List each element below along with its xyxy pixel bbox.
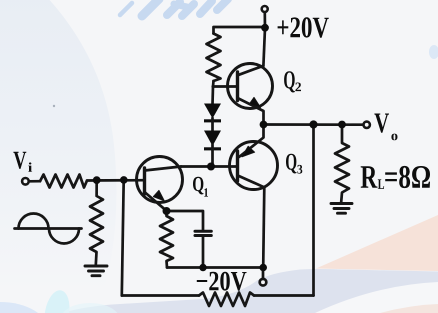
- watermark: white swoosh cutting bottom-right: [315, 282, 438, 313]
- Q1 emitter arrow: [153, 190, 164, 200]
- wire: output rail (Q2/Q3 emitters to Vo): [264, 123, 364, 126]
- sine source symbol: [15, 214, 82, 244]
- Q1 base bar: [143, 168, 146, 194]
- resistor R4 (bias to ground): [90, 180, 103, 265]
- Q3 emitter lead (top): [239, 125, 264, 158]
- Q2 collector lead: [238, 66, 263, 75]
- diode D1: [204, 104, 221, 123]
- resistor R5 (Q1 emitter): [160, 211, 173, 268]
- wire: Q2 base: [213, 85, 238, 88]
- Q3 base bar: [236, 151, 239, 181]
- transistor Q3 (PNP) circle: [230, 142, 278, 190]
- node: +20V junction: [261, 24, 269, 32]
- label -20V: [197, 272, 247, 291]
- transistor Q1 (NPN) circle: [137, 157, 183, 203]
- Q1 collector lead: [145, 167, 182, 171]
- watermark: blue blob bottom-left corner: [0, 302, 48, 313]
- watermark: blue logo glyph strokes top center: [120, 0, 228, 16]
- label Vi: [13, 152, 32, 172]
- resistor RL (load): [335, 125, 349, 203]
- resistor R3 (input series): [40, 175, 87, 188]
- label +20V: [278, 17, 329, 38]
- wire: input resistor to Q1 base: [87, 179, 145, 182]
- wire: emitter network bottom: [167, 266, 263, 269]
- Q1 emitter lead: [145, 192, 167, 211]
- wire: bottom loop left segment: [122, 294, 199, 297]
- watermark: pink sliver bottom-right corner: [380, 304, 438, 313]
- wire: left loop vertical: [122, 180, 124, 296]
- wire: D1 to D2: [211, 118, 214, 131]
- Q2 emitter lead: [238, 98, 264, 125]
- label Q3: [286, 154, 302, 174]
- terminal +20V (top): [262, 6, 268, 12]
- node: RL junction: [338, 121, 346, 129]
- capacitor C1 branch top wire: [167, 211, 204, 230]
- node: Q1 emitter junction: [163, 207, 171, 215]
- wire: -20V junction to terminal: [262, 268, 265, 279]
- Q2 base bar: [236, 72, 239, 101]
- wire: bottom loop right segment: [254, 294, 314, 297]
- watermark: peach wedge right: [316, 215, 438, 271]
- terminal Vo: [364, 122, 370, 128]
- scan speck: [53, 105, 55, 107]
- wire: D2 to node A: [211, 145, 214, 167]
- Q3 collector lead (bottom): [238, 176, 264, 268]
- wire: bootstrap vertical right: [312, 125, 315, 296]
- wire: Vi to input resistor: [29, 180, 40, 183]
- node: bootstrap junction: [309, 120, 317, 128]
- transistor Q2 (NPN) circle: [228, 64, 273, 109]
- node: input/bias junction: [93, 176, 101, 184]
- ground (load RL): [331, 204, 352, 214]
- wire: terminal to +20V junction: [263, 12, 266, 28]
- node A: diode/Q1 collector/Q3 base: [207, 163, 215, 171]
- wire: node A horizontal (Q1 collector to Q3 base): [181, 165, 238, 168]
- watermark: pale disc top-left: [0, 0, 116, 290]
- node: output/Q2-Q3 emitter junction: [260, 121, 268, 129]
- ground (input bias): [85, 266, 107, 276]
- Q3 emitter arrow (PNP, pointing to base): [242, 146, 255, 157]
- capacitor C1 plates: [195, 231, 211, 235]
- wire: +20V rail down to Q2 collector: [263, 28, 265, 66]
- label RL=8ohm: [361, 166, 430, 189]
- diode D2: [204, 131, 221, 151]
- wire: capacitor bottom lead: [202, 237, 205, 268]
- wire: +20V junction left branch: [214, 27, 266, 34]
- label Q1: [193, 177, 208, 197]
- terminal -20V: [260, 279, 267, 286]
- watermark: lavender swoosh bottom: [62, 269, 438, 313]
- resistor R2 (bottom feedback): [199, 293, 254, 307]
- wire: R1 to diode D1 / Q2 base node: [213, 81, 214, 104]
- resistor R1 (bias from +20V): [207, 34, 221, 82]
- node: capacitor bottom junction: [199, 264, 206, 271]
- node: base/loop junction: [120, 176, 128, 184]
- label Vo: [374, 114, 397, 141]
- watermark: cyan petal bottom-left: [41, 288, 73, 313]
- label Q2: [284, 71, 301, 92]
- Q2 emitter arrow: [249, 97, 260, 107]
- terminal Vi: [22, 178, 29, 185]
- node: -20V junction: [259, 264, 267, 272]
